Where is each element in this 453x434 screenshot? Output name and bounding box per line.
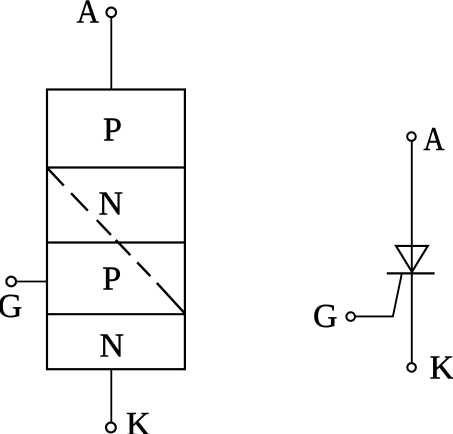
svg-text:G: G [0,288,22,325]
svg-text:A: A [77,0,100,31]
svg-text:K: K [126,406,151,434]
svg-text:P: P [102,260,121,297]
svg-text:P: P [103,112,122,149]
svg-text:A: A [423,120,444,158]
svg-text:N: N [99,185,124,222]
svg-text:G: G [313,298,338,335]
svg-text:K: K [430,350,453,387]
svg-text:N: N [100,328,125,365]
